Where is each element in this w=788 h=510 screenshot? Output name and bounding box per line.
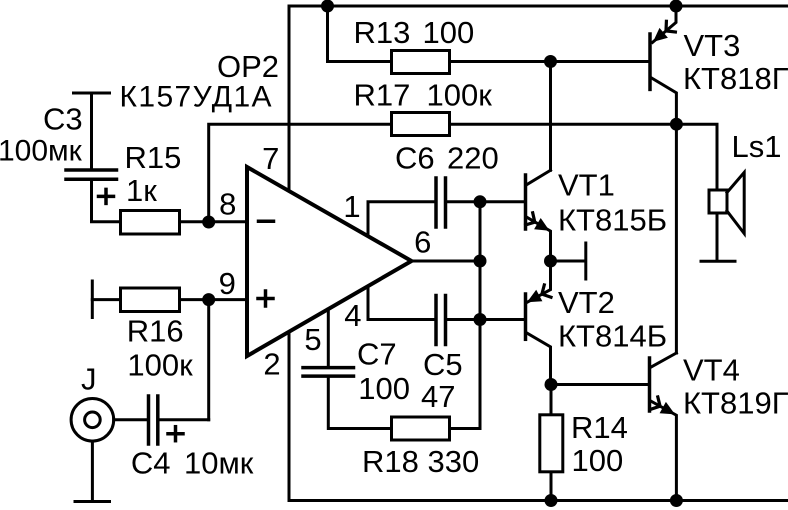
speaker Ls1 horn xyxy=(727,172,744,233)
resistor R16 xyxy=(121,288,180,312)
wire C7 bottom to R18 left xyxy=(328,378,390,429)
svg-text:100: 100 xyxy=(358,371,410,406)
resistor R13 xyxy=(392,51,450,74)
wire R13 right to node B xyxy=(451,60,551,63)
svg-text:R18: R18 xyxy=(362,444,419,479)
svg-text:7: 7 xyxy=(262,141,279,176)
svg-text:С3: С3 xyxy=(43,102,83,137)
svg-text:2: 2 xyxy=(263,347,280,382)
transistor VT3 collector xyxy=(651,78,676,125)
wire R16 right to non-inverting input pin 9 xyxy=(181,298,247,301)
node B junction R13/VT3 base/VT1 collector riser xyxy=(544,55,557,68)
svg-text:С7: С7 xyxy=(357,337,397,372)
transistor VT4 collector xyxy=(651,353,676,367)
wire pin7 supply drop from rail into op-amp top edge xyxy=(288,6,291,189)
svg-text:VT2: VT2 xyxy=(558,285,615,320)
node junction on top rail feeding R13 xyxy=(321,0,334,13)
wire pin 1 lead xyxy=(368,202,435,236)
wire C6 right to node and VT1 base xyxy=(447,200,524,203)
transistor VT1 emitter xyxy=(527,217,551,261)
wire J ground lead xyxy=(91,441,94,500)
svg-text:100: 100 xyxy=(423,15,475,50)
polarity plus of C4 xyxy=(168,432,183,436)
wire from top rail down to R13 left xyxy=(328,6,391,62)
transistor VT2 base bar xyxy=(524,294,528,339)
svg-text:Ls1: Ls1 xyxy=(732,129,782,164)
node non-inverting input junction (pin 9) xyxy=(202,293,215,306)
svg-text:1: 1 xyxy=(343,189,360,224)
svg-text:С6: С6 xyxy=(395,141,435,176)
wire C4 right to pin9 drop xyxy=(159,418,208,421)
svg-text:6: 6 xyxy=(414,225,431,260)
node output D xyxy=(670,118,683,131)
node output junction F xyxy=(474,255,487,268)
speaker Ls1 box xyxy=(709,190,727,213)
wire C3 bottom lead to R15 xyxy=(92,181,120,222)
wire pin 5 lead xyxy=(327,309,330,366)
wire pin 4 lead xyxy=(368,287,435,319)
wire R17 left leg down to inverting input node xyxy=(209,124,390,222)
svg-text:R13: R13 xyxy=(354,15,411,50)
wire node G to stub xyxy=(551,260,585,263)
node VT4 emitter on bottom rail xyxy=(670,494,683,507)
wire C5 right to node and VT2 base xyxy=(447,318,524,321)
svg-text:КТ818Г: КТ818Г xyxy=(683,61,788,96)
svg-text:4: 4 xyxy=(344,298,361,333)
svg-text:9: 9 xyxy=(219,266,236,301)
svg-text:R17: R17 xyxy=(354,78,411,113)
svg-text:220: 220 xyxy=(447,141,499,176)
wire pin2 negative supply drop to bottom rail xyxy=(288,333,291,501)
svg-text:VT4: VT4 xyxy=(683,352,740,387)
transistor VT4 emitter xyxy=(651,401,676,500)
svg-text:К157УД1А: К157УД1А xyxy=(120,80,273,113)
capacitor C3 (electrolytic) plates xyxy=(66,168,117,172)
wire J to C4 xyxy=(114,418,147,421)
svg-text:КТ819Г: КТ819Г xyxy=(683,386,788,421)
wire bottom negative supply rail xyxy=(289,499,788,502)
wire node B to VT3 base xyxy=(551,60,649,63)
svg-text:10мк: 10мк xyxy=(184,445,254,480)
transistor VT1 collector xyxy=(527,170,551,185)
svg-text:330: 330 xyxy=(428,444,480,479)
terminal stub left of R16 xyxy=(91,281,94,318)
svg-text:КТ814Б: КТ814Б xyxy=(558,318,667,353)
transistor VT3 emitter lead xyxy=(653,6,677,42)
capacitor C5 plates xyxy=(434,296,438,345)
wire R17 right to output node (feedback) xyxy=(451,123,677,126)
transistor VT2 emitter arrow xyxy=(527,290,542,302)
wire R15 right to inverting input pin 8 xyxy=(181,220,247,223)
transistor VT4 base bar xyxy=(648,358,652,411)
node junction at C6 line xyxy=(474,195,487,208)
resistor R15 xyxy=(121,211,180,235)
connector J inner pin circle xyxy=(85,412,101,428)
op-amp OP2 triangle xyxy=(247,167,412,356)
wire R18 right up to C5 node xyxy=(451,427,481,430)
svg-text:100к: 100к xyxy=(427,78,493,113)
wire node H down to R14 xyxy=(550,385,553,414)
resistor R14 xyxy=(540,415,563,472)
transistor VT3 base bar xyxy=(648,34,652,89)
wire node H to VT4 base xyxy=(551,383,648,386)
node inverting input junction (pin 8) xyxy=(202,216,215,229)
svg-text:5: 5 xyxy=(304,322,321,357)
capacitor C6 plates xyxy=(434,178,438,227)
transistor VT4 emitter arrow xyxy=(660,402,675,415)
svg-text:100: 100 xyxy=(572,443,624,478)
transistor VT4 collector riser from output node xyxy=(675,124,678,353)
svg-text:VT3: VT3 xyxy=(684,28,741,63)
svg-text:VT1: VT1 xyxy=(558,168,615,203)
wire output node to speaker xyxy=(676,124,717,190)
transistor VT1 base bar xyxy=(524,175,528,229)
transistor VT2 collector xyxy=(527,333,551,385)
terminal stub below speaker xyxy=(701,260,735,263)
svg-text:КТ815Б: КТ815Б xyxy=(558,203,667,238)
wire speaker bottom lead xyxy=(716,213,719,260)
resistor R17 xyxy=(392,113,450,136)
wire op-amp output pin 6 xyxy=(412,260,481,263)
polarity plus of C3 xyxy=(99,195,114,199)
wire VT1 collector riser (crosses feedback line, no junction) xyxy=(549,62,552,171)
capacitor C7 plates xyxy=(303,366,354,370)
svg-text:С5: С5 xyxy=(423,347,463,382)
transistor VT1 emitter arrow xyxy=(534,218,549,231)
node VT2 collector / VT4 base / R14 junction H xyxy=(545,378,558,391)
svg-text:100мк: 100мк xyxy=(0,134,83,167)
svg-text:8: 8 xyxy=(219,186,236,221)
node R14 on bottom rail xyxy=(545,494,558,507)
terminal stub right of node G xyxy=(584,243,587,279)
connector J outer circle xyxy=(71,399,114,442)
wire R14 bottom to rail xyxy=(550,473,553,500)
svg-text:R15: R15 xyxy=(125,140,182,175)
svg-text:1к: 1к xyxy=(126,173,157,208)
svg-text:R16: R16 xyxy=(127,314,184,349)
wire top positive supply rail xyxy=(289,5,788,8)
wire vertical bus C6/C5/R18 xyxy=(479,202,482,429)
node emitter junction G xyxy=(544,255,557,268)
terminal stub above C3 xyxy=(74,92,110,95)
svg-text:47: 47 xyxy=(421,379,455,414)
node VT3 emitter on top rail xyxy=(670,0,683,13)
resistor R18 xyxy=(392,417,450,440)
svg-text:100к: 100к xyxy=(127,348,193,383)
wire C3 top lead xyxy=(90,93,93,169)
input plus sign xyxy=(258,291,273,306)
wire pin9 node down to C4 xyxy=(207,300,210,420)
svg-text:J: J xyxy=(81,362,97,397)
capacitor C4 plates xyxy=(147,396,151,444)
input minus sign xyxy=(259,219,274,223)
svg-text:ОР2: ОР2 xyxy=(217,49,279,84)
svg-text:R14: R14 xyxy=(571,410,628,445)
terminal stub J ground bar xyxy=(75,500,110,503)
node junction at C5 line xyxy=(474,313,487,326)
svg-text:С4: С4 xyxy=(131,445,171,480)
transistor VT2 emitter lead from node G xyxy=(527,261,551,303)
transistor VT3 emitter arrow xyxy=(653,28,668,42)
wire stub to R16 xyxy=(92,298,120,301)
